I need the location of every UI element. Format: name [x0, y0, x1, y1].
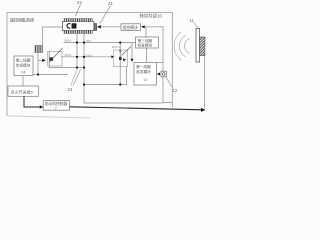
svg-text:11: 11 [190, 18, 195, 23]
svg-text:点火开关组5: 点火开关组5 [11, 89, 34, 95]
svg-text:遥控钥匙系统: 遥控钥匙系统 [10, 16, 34, 22]
svg-text:21: 21 [108, 1, 113, 6]
svg-text:2#14: 2#14 [65, 53, 72, 57]
svg-text:第三线圈: 第三线圈 [138, 38, 153, 43]
svg-text:22: 22 [77, 0, 82, 5]
svg-text:13: 13 [143, 77, 148, 82]
svg-text:12: 12 [173, 88, 178, 93]
svg-text:第二线圈: 第二线圈 [16, 58, 31, 63]
svg-text:收发模块: 收发模块 [16, 62, 31, 67]
svg-text:转向柱锁10: 转向柱锁10 [140, 13, 163, 20]
svg-text:收发模块: 收发模块 [138, 43, 153, 48]
svg-text:遥控模块: 遥控模块 [123, 25, 138, 30]
svg-text:N4T4: N4T4 [112, 45, 120, 49]
svg-text:24: 24 [21, 70, 26, 75]
svg-text:1#14: 1#14 [64, 39, 71, 43]
svg-text:第一线圈: 第一线圈 [136, 64, 151, 69]
svg-text:+B1: +B1 [86, 39, 92, 43]
svg-text:SW1: SW1 [86, 54, 93, 58]
svg-text:收发模块: 收发模块 [136, 69, 151, 74]
svg-text:23: 23 [68, 87, 73, 92]
